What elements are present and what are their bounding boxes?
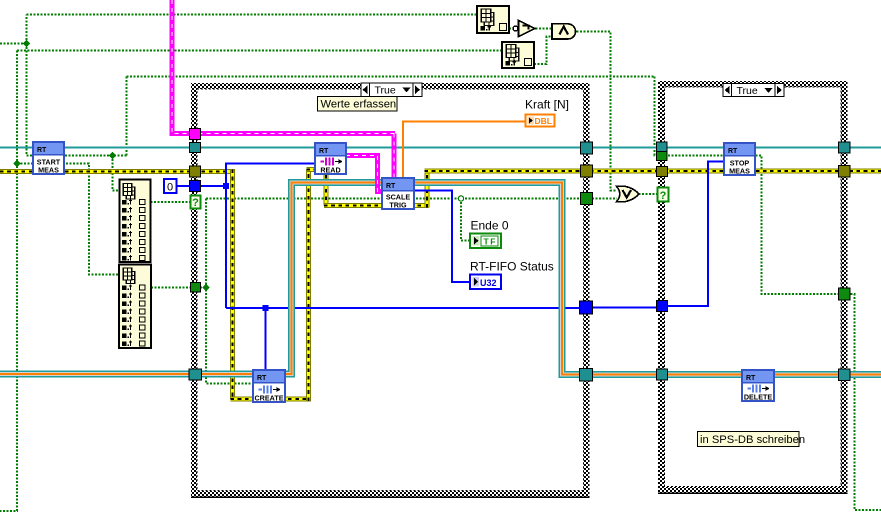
constant array-of-cluster 2 [119,265,151,349]
svg-text:U32: U32 [480,278,497,288]
wire orange DBL to SCALE TRIG [403,122,526,180]
wire blue 0-constant to junction [176,185,226,187]
wire boolean drop to Ende0 TF [461,199,470,241]
wire boolean EA1 to NOT [509,28,513,30]
wire error: jog right top [307,167,327,172]
constant array-of-cluster 1 [120,180,151,263]
junction diamond C [13,160,20,167]
wire error: up leg x427 [425,171,430,208]
wire boolean net-A drop x26 [26,44,28,156]
svg-text:?: ? [660,190,667,202]
gate NOT [513,21,535,37]
tunnel olive case2 right [839,166,851,178]
constant 0 [164,179,177,194]
wire boolean net-A riser [26,15,28,44]
wire blue y308 run to right tunnel [226,307,586,309]
tunnel teal case1 right bottom [580,369,593,382]
junction ring E [458,196,463,201]
tunnel teal case2 right bottom [839,369,851,381]
svg-text:RT: RT [257,375,267,382]
tunnel green case2 left [657,152,668,161]
svg-text:?: ? [192,197,199,209]
node RT STOP MEAS [724,143,755,176]
wire blue SCALE TRIG to U32 [414,191,470,283]
tunnel teal case2 left top [657,142,668,152]
wire boolean NOT to AND [536,28,553,30]
wire boolean net-A right of case2 [847,294,881,510]
case2 selector label True [723,84,784,97]
indicator TF Ende 0 [470,219,509,249]
tunnel blue case1 right [580,301,593,314]
svg-text:0: 0 [167,182,173,194]
svg-text:DBL: DBL [535,116,552,126]
selector terminal case1 [191,196,201,210]
wire boolean inside case1 y198 run to right tunnel [206,198,581,200]
wire boolean array1 output to case1 selector [151,201,192,203]
junction diamond B [109,152,116,159]
label in SPS-DB schreiben [698,432,806,447]
svg-text:Werte erfassen: Werte erfassen [321,99,397,111]
svg-text:True: True [737,85,758,97]
wire boolean net-A y155 run [27,155,127,157]
node RT START MEAS [33,142,64,175]
svg-text:RT: RT [386,183,396,190]
case1 selector label True [361,83,422,97]
wire boolean net-A left horizontal [0,43,27,45]
junction diamond D [202,284,209,291]
svg-text:RT: RT [37,147,47,154]
gate OR [617,186,639,201]
svg-text:READ: READ [320,166,340,175]
wire blue between cases [586,307,662,309]
junction dot blue 1 [223,183,229,189]
tunnel blue case1 left [190,181,201,192]
wire boolean OR output to case2 selector [639,193,659,195]
wire error: down leg x232 [230,170,235,400]
tunnel olive case2 left [657,167,668,177]
svg-text:in SPS-DB schreiben: in SPS-DB schreiben [700,434,805,446]
tunnel olive case1 left [190,166,201,177]
wire error: down leg x326 [324,168,329,206]
node RT SCALE TRIG [382,178,414,210]
svg-text:True: True [375,84,396,96]
wire boolean inside case1 vertical x206 [200,199,253,384]
wire FIFO bundle left into CREATE [0,371,253,378]
wire FIFO bundle between cases through DELETE to edge [586,371,881,378]
node RT DELETE [742,370,774,402]
svg-text:DELETE: DELETE [744,393,773,402]
tunnel blue case2 left [657,301,668,312]
indicator U32 RT-FIFO Status [470,260,554,290]
label Werte erfassen [318,97,398,112]
wire boolean net-A to Empty-Array-1 input [27,14,478,16]
wire error: up leg x308 [306,170,311,402]
wire FIFO bundle CREATE up-over-down [285,183,586,375]
svg-text:Kraft [N]: Kraft [N] [525,98,569,112]
junction dot blue 2 [263,305,269,311]
tunnel teal case1 left top [190,143,201,153]
function Empty Array? 2 [502,42,534,68]
wire boolean net-A y76 long run [127,76,655,78]
wire boolean net-B branch to array2 [17,164,120,275]
svg-text:MEAS: MEAS [729,167,750,176]
svg-text:MEAS: MEAS [38,166,59,175]
node RT READ [315,143,346,175]
tunnel green case1 right [581,193,593,205]
tunnel olive case1 right [581,165,593,177]
wire error: run into SCALE TRIG [324,203,429,208]
wire blue riser and READ input [226,164,315,309]
svg-text:RT: RT [746,375,756,382]
junction diamond A [23,40,30,47]
svg-text:RT-FIFO Status: RT-FIFO Status [470,260,554,274]
wire error: left run [0,169,235,174]
wire cluster magenta READ to SCALE TRIG [346,156,383,192]
svg-text:RT: RT [728,148,738,155]
gate AND [552,24,576,39]
svg-text:CREATE: CREATE [254,394,283,403]
wire boolean net-A riser x126 [126,77,128,156]
tunnel magenta case1 left [190,129,201,140]
selector terminal case2 [658,188,669,203]
function Empty Array? 1 [477,6,509,33]
tunnel teal case2 left bottom [657,369,668,380]
wire boolean net-A inside case2 [668,156,840,295]
wire boolean net-B to Empty-Array-2 input [17,50,502,52]
wire boolean net-A stub into array1 [113,156,121,191]
tunnel teal case1 left bottom [189,369,202,380]
wire boolean net-B long drop x17 [0,51,17,512]
wire blue inside case2 to STOP MEAS [662,162,724,307]
wire boolean EA2 to AND [534,37,552,65]
wire cluster magenta from top into case1 and SCALE TRIG [172,0,395,179]
case structure 1 border [191,83,590,497]
tunnel teal case2 right top [839,142,851,153]
wire error: bottom run through CREATE [231,397,312,402]
tunnel teal case1 right top [581,142,593,154]
svg-text:RT: RT [319,148,329,155]
case structure 2 border [658,81,848,493]
svg-text:Ende 0: Ende 0 [471,219,509,233]
wire error: right run to image edge [425,169,881,174]
wire boolean array2 output to case1 tunnel [151,287,200,289]
indicator DBL Kraft[N] [525,98,569,127]
svg-text:TRIG: TRIG [389,201,407,210]
wire boolean net-A drop to case2 tunnel [655,77,660,156]
node RT CREATE [253,370,285,403]
wire teal task line full width [0,147,881,149]
svg-text:TF: TF [484,236,497,246]
wire boolean case1 tunnel to OR [592,198,617,200]
wire boolean AND output to OR [577,32,617,191]
tunnel green case1 left [191,283,201,293]
wire blue branch into CREATE [265,308,267,371]
tunnel green case2 right [839,288,851,300]
